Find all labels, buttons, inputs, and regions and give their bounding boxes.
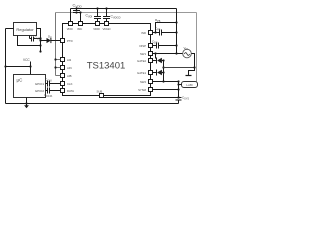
pin box SW1 (149, 52, 153, 56)
capacitor CPB (160, 30, 162, 36)
pin box AIB (61, 74, 65, 78)
node dot pin2-rail (79, 11, 81, 13)
pin box VDDI top (96, 22, 100, 26)
pin box CLK (61, 82, 65, 86)
svg-text:SYSM: SYSM (138, 88, 147, 92)
wire regulator input right (37, 29, 41, 52)
node dot SW2 branch (162, 80, 164, 82)
wire PTD row (41, 40, 47, 42)
wire VCC stub to uC (30, 62, 32, 75)
pin box VDGD top (105, 22, 109, 26)
wire GATE1 row (153, 72, 157, 74)
node dot VCC-left (4, 65, 6, 67)
pin box PTD (61, 39, 65, 43)
node dot SYSM right (177, 88, 179, 90)
node dot reg column a (39, 37, 41, 39)
svg-text:SW2: SW2 (140, 80, 147, 84)
wire regulator leg left (18, 36, 41, 46)
svg-text:AIB: AIB (67, 74, 72, 78)
ground symbol arrow (26, 104, 28, 106)
svg-text:CSYS: CSYS (182, 96, 189, 101)
svg-text:CDATA: CDATA (44, 93, 53, 98)
svg-text:IND: IND (141, 31, 146, 35)
pin box AI2 (61, 58, 65, 62)
wire IND row (153, 32, 177, 34)
svg-text:CLK: CLK (67, 82, 73, 86)
wire DISP row (153, 45, 177, 47)
svg-text:DISP: DISP (139, 44, 146, 48)
capacitor CVDGD (103, 9, 110, 22)
capacitor CDATA (48, 88, 61, 94)
node dot VDD-CVDD (75, 7, 77, 9)
svg-text:SUB: SUB (97, 90, 103, 94)
node dot RPB top (175, 21, 177, 23)
svg-text:GPIO2: GPIO2 (35, 89, 45, 93)
wire VCC horizontal (6, 66, 31, 68)
capacitor CVDD (73, 9, 80, 13)
node dot PTD-column (39, 39, 41, 41)
svg-text:GATE1: GATE1 (137, 71, 146, 75)
motor V valve (183, 49, 192, 58)
pin box SUB bottom (100, 94, 104, 98)
node dot D1 out (162, 71, 164, 73)
op IC U1 TS13401 body (63, 24, 151, 96)
capacitor CDSP (157, 43, 159, 49)
pin box AIN (61, 66, 65, 70)
battery BT1 (179, 82, 198, 88)
pin box DATA (61, 89, 65, 93)
node dot CVDDI-rail (96, 7, 98, 9)
node dot D2 out (162, 59, 164, 61)
node dot CVDD-VBAT (75, 11, 77, 13)
wire AIB row (56, 75, 61, 77)
svg-text:CCLK: CCLK (45, 78, 52, 83)
svg-text:VCC: VCC (23, 58, 30, 62)
node dot SW1 branch (154, 52, 156, 54)
pin box GATE2 (149, 59, 153, 63)
wire VDD right drop x176 (176, 9, 178, 54)
resistor RPB path (156, 23, 177, 33)
pin box IMC top (79, 22, 83, 26)
wire gray left drop x55 (55, 13, 57, 76)
svg-text:µC: µC (17, 78, 24, 83)
svg-text:AIN: AIN (67, 66, 72, 70)
svg-text:CVDD: CVDD (73, 3, 83, 9)
node dot valve branch (162, 66, 164, 68)
wire AI2 row (56, 59, 61, 61)
node dot SW2 right (177, 80, 179, 82)
regulator U2 (14, 23, 37, 36)
wire regulator output left (6, 28, 14, 30)
wire SW1 to diode stub (155, 54, 157, 59)
wire SW2 row (153, 81, 179, 83)
wire GATE2 row (153, 60, 157, 62)
svg-text:VDGD: VDGD (103, 27, 111, 31)
node dot AI2 (54, 58, 56, 60)
wire AIN row (56, 67, 61, 69)
svg-text:TS13401: TS13401 (87, 61, 126, 72)
svg-text:CVDGD: CVDGD (111, 15, 121, 20)
capacitor CVCC (30, 36, 41, 42)
svg-text:VDD: VDD (67, 27, 73, 31)
switch S1 (186, 68, 195, 76)
wire valve return (164, 67, 195, 69)
capacitor CVDDI (94, 9, 101, 22)
svg-text:VDDI: VDDI (93, 27, 100, 31)
wire VDD top rail (71, 8, 177, 10)
svg-text:PTD: PTD (67, 39, 73, 43)
capacitor CCLK (48, 81, 61, 87)
node dot IND branch (154, 31, 156, 33)
pin box GATE1 (149, 71, 153, 75)
wire battery column (178, 82, 180, 98)
microcontroller U3 (14, 75, 46, 98)
diode DP (47, 38, 61, 43)
wire ground bottom run (6, 103, 179, 105)
wire pin VDD stub (70, 9, 72, 22)
node dot ground junction (25, 102, 27, 104)
node dot DISP right (175, 44, 177, 46)
svg-text:SW1: SW1 (140, 52, 147, 56)
svg-text:AI2: AI2 (67, 58, 72, 62)
capacitor CSYS (176, 98, 182, 104)
node dot SW1 vdd (175, 52, 177, 54)
svg-text:IMC: IMC (77, 27, 82, 31)
node dot reg column b (39, 44, 41, 46)
wire SW1 row (153, 53, 183, 55)
svg-text:GATE2: GATE2 (137, 59, 146, 63)
wire diode junction vertical (163, 61, 165, 82)
wire pin2 stub (80, 13, 82, 22)
node dot CSYS top (177, 96, 179, 98)
wire VBAT gray rail (56, 12, 197, 14)
wire motor right (192, 54, 195, 68)
wire uC ground stub (26, 98, 28, 104)
node dot VCC-stub (29, 65, 31, 67)
wire SYSM row (153, 89, 179, 91)
svg-text:Regulator: Regulator (16, 27, 34, 32)
svg-text:CVDI: CVDI (86, 14, 93, 19)
wire gray right drop x196 (196, 13, 198, 83)
svg-text:GPIO1: GPIO1 (35, 82, 45, 86)
pin box IND (149, 31, 153, 35)
node dot IND right (175, 31, 177, 33)
diode D2 (157, 58, 164, 64)
pin box SW2 (149, 80, 153, 84)
diode D1 (157, 70, 164, 76)
pin box VDD top (69, 22, 73, 26)
node dot reg column c (39, 50, 41, 52)
svg-text:DP: DP (48, 35, 52, 40)
wire VCC left vertical (5, 29, 7, 104)
pin box SYSM (149, 88, 153, 92)
node dot AIN (54, 66, 56, 68)
wire GPIO1 row (46, 83, 48, 85)
node dot valve return right (193, 66, 195, 68)
svg-text:DATA: DATA (67, 89, 74, 93)
wire GPIO2 row (46, 90, 48, 92)
wire SUB row (102, 97, 176, 99)
svg-text:Li-80: Li-80 (186, 83, 193, 87)
node dot CVDGD-rail (105, 7, 107, 9)
pin box DISP (149, 44, 153, 48)
node dot battery tap (177, 83, 179, 85)
